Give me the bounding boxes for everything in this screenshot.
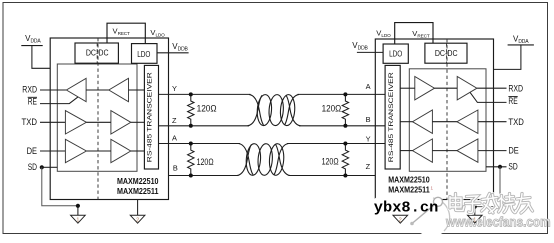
svg-text:2: 2 [399,218,402,224]
svg-text:LDO: LDO [137,50,150,59]
svg-text:MAXM22510: MAXM22510 [117,176,159,186]
svg-text:B: B [366,115,371,124]
svg-text:A: A [366,82,371,91]
svg-text:RXD: RXD [22,85,37,95]
svg-text:DE: DE [508,146,519,156]
svg-text:DC-DC: DC-DC [435,49,458,58]
svg-text:TXD: TXD [508,117,524,127]
svg-text:RS-485 TRANSCEIVER: RS-485 TRANSCEIVER [388,71,395,162]
svg-text:120Ω: 120Ω [197,103,217,113]
svg-text:TXD: TXD [22,117,38,127]
svg-text:MAXM22511: MAXM22511 [388,185,430,195]
svg-text:1: 1 [76,218,79,224]
svg-text:120Ω: 120Ω [322,104,342,114]
svg-text:Z: Z [366,162,371,171]
svg-text:MAXM22510: MAXM22510 [388,175,430,185]
svg-text:DE: DE [27,146,38,156]
svg-text:RE: RE [28,96,37,106]
svg-text:SD: SD [28,162,37,172]
svg-text:LDO: LDO [389,50,402,59]
svg-text:2: 2 [136,218,139,224]
svg-text:B: B [173,163,178,172]
svg-text:ybx8.cn: ybx8.cn [374,200,439,216]
svg-text:DC-DC: DC-DC [86,49,109,58]
svg-text:MAXM22511: MAXM22511 [117,186,159,196]
svg-text:Y: Y [366,134,371,143]
svg-text:RS-485 TRANSCEIVER: RS-485 TRANSCEIVER [147,71,154,162]
svg-text:RXD: RXD [508,83,523,93]
svg-text:RE: RE [508,96,517,106]
svg-text:Y: Y [172,84,177,93]
svg-text:A: A [172,134,177,143]
svg-text:120Ω: 120Ω [322,156,339,166]
svg-text:Z: Z [172,116,177,125]
svg-text:SD: SD [508,162,517,172]
svg-text:www.elecfans.com: www.elecfans.com [445,215,550,230]
svg-text:120Ω: 120Ω [197,157,214,167]
